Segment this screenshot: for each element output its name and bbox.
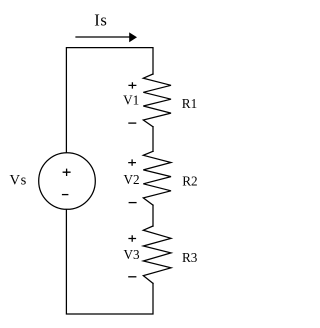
svg-text:R2: R2 (182, 174, 197, 189)
svg-text:V1: V1 (123, 93, 139, 108)
svg-text:R1: R1 (182, 96, 197, 111)
svg-text:V3: V3 (123, 247, 140, 262)
svg-text:Vs: Vs (9, 173, 26, 189)
svg-text:Is: Is (94, 10, 107, 29)
svg-text:V2: V2 (124, 172, 140, 187)
svg-text:R3: R3 (182, 250, 198, 265)
